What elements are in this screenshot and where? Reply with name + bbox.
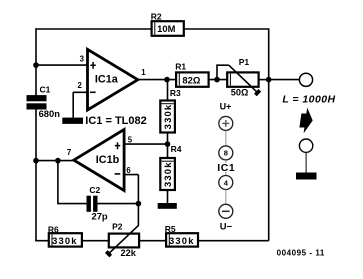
label document number [277, 248, 325, 257]
value 330k R3 [162, 104, 173, 130]
pin 8 circle [219, 146, 233, 160]
link pin8 to IC1 [225, 160, 227, 163]
capacitor C1 [27, 95, 47, 109]
pin 6 label [126, 166, 131, 175]
svg-text:R3: R3 [170, 88, 181, 98]
pin 7 label [67, 148, 71, 157]
op-amp U2 IC1b [74, 130, 124, 191]
wire C2 to junction [98, 203, 139, 205]
label P2 [112, 222, 123, 232]
svg-text:3: 3 [80, 55, 85, 64]
svg-text:R2: R2 [151, 11, 162, 21]
svg-text:1: 1 [141, 68, 146, 77]
svg-text:2: 2 [78, 81, 83, 90]
label IC1b [96, 154, 120, 166]
value 10M [157, 23, 175, 34]
op-amp U1 IC1a [88, 49, 138, 110]
svg-text:680n: 680n [39, 108, 61, 119]
resistor R5 [166, 233, 198, 246]
value 22k [121, 248, 137, 258]
svg-text:330k: 330k [52, 235, 78, 246]
wire R3 top stub [167, 80, 169, 101]
svg-text:82Ω: 82Ω [182, 75, 200, 86]
label R4 [171, 144, 182, 154]
wire bottom rail segments [35, 240, 269, 242]
wire terminal to ground [305, 153, 307, 173]
pin 1 label [141, 68, 146, 77]
resistor R6 [49, 233, 82, 246]
ground below lower terminal [296, 173, 317, 180]
svg-text:004095 - 11: 004095 - 11 [277, 248, 325, 257]
label IC1 = TL082 [85, 115, 146, 127]
potentiometer P1 [227, 65, 260, 95]
node junction C2 pin6 [136, 201, 142, 207]
svg-text:IC1 = TL082: IC1 = TL082 [85, 115, 146, 127]
label L = 1000H [282, 94, 335, 106]
ground below pin 2 [62, 118, 83, 124]
value 680n [39, 108, 61, 119]
svg-text:U−: U− [220, 220, 233, 231]
link U+ to pin8 [225, 131, 227, 146]
wire to output terminal [269, 79, 299, 81]
wire R3 bottom stub [167, 133, 169, 145]
svg-text:P1: P1 [239, 57, 250, 67]
svg-text:C2: C2 [89, 185, 100, 195]
label R1 [175, 61, 186, 71]
svg-text:R5: R5 [165, 224, 176, 234]
svg-text:5: 5 [128, 136, 133, 145]
potentiometer P2 [106, 225, 139, 256]
svg-text:8: 8 [224, 149, 228, 158]
wire top rail left of R2 [36, 28, 152, 30]
wire left rail below C1 [35, 109, 37, 241]
label P1 [239, 57, 250, 67]
svg-text:R4: R4 [171, 144, 182, 154]
node junction R3 R4 [165, 141, 171, 147]
label U+ [220, 102, 232, 112]
terminal circle lower [299, 139, 312, 152]
svg-text:50Ω: 50Ω [231, 88, 249, 98]
ground below R4 [158, 203, 177, 209]
svg-text:7: 7 [67, 148, 71, 157]
node junction right rail [266, 77, 272, 83]
label R5 [165, 224, 176, 234]
svg-text:IC1b: IC1b [96, 154, 120, 166]
capacitor C2 [87, 196, 98, 212]
node junction left +input [33, 62, 39, 68]
label R6 [48, 224, 59, 234]
node junction R1-P1 [214, 77, 220, 83]
pin 3 label [80, 55, 85, 64]
wire output IC1a [138, 79, 176, 81]
wire R4 top stub [167, 144, 169, 158]
node output junction [164, 77, 170, 83]
value 27p [92, 211, 108, 222]
wire top rail right of R2 into right rail down [184, 28, 269, 241]
power terminal U- circle [219, 204, 233, 218]
wire R1 to P1 [209, 79, 228, 81]
svg-text:22k: 22k [121, 248, 137, 258]
link IC1 to pin4 [225, 172, 227, 175]
value 50Ohm [231, 88, 249, 98]
wire left rail above C1 [35, 28, 37, 96]
terminal circle output [299, 73, 312, 86]
wire P1 to right rail [259, 79, 269, 81]
svg-text:R6: R6 [48, 224, 59, 234]
svg-text:R1: R1 [175, 61, 186, 71]
wire inverting input IC1b pin6 [124, 175, 138, 204]
svg-text:6: 6 [126, 166, 131, 175]
wire junction down to P2 wiper [137, 204, 139, 226]
power terminal U+ circle [219, 116, 233, 130]
label R3 [170, 88, 181, 98]
label U- [220, 220, 233, 231]
resistor R4 [160, 158, 175, 190]
resistor R2 [152, 21, 184, 36]
svg-text:330k: 330k [169, 235, 195, 246]
pin 2 label [78, 81, 83, 90]
svg-text:U+: U+ [220, 102, 232, 112]
label C1 [40, 84, 51, 94]
svg-text:L = 1000H: L = 1000H [282, 94, 335, 106]
svg-text:IC1a: IC1a [95, 74, 119, 86]
label C2 [89, 185, 100, 195]
resistor R1 [176, 72, 209, 86]
svg-text:10M: 10M [157, 23, 175, 34]
link pin4 to U- [225, 190, 227, 205]
wire inverting input IC1a [73, 92, 88, 118]
label R2 [151, 11, 162, 21]
node junction left rail pin7 [33, 158, 39, 164]
node junction pin7 branch [55, 158, 61, 164]
wire output IC1b pin7 [36, 160, 74, 162]
wire noninverting input IC1a [36, 64, 87, 66]
value 330k R5 [169, 235, 195, 246]
svg-text:330k: 330k [162, 104, 173, 130]
value 330k R6 [52, 235, 78, 246]
svg-text:P2: P2 [112, 222, 123, 232]
wire P1 wiper bypass [217, 65, 229, 79]
svg-text:27p: 27p [92, 211, 108, 222]
label IC1 supply [217, 162, 235, 174]
svg-text:330k: 330k [162, 161, 173, 187]
resistor R3 [160, 101, 175, 133]
wire branch down to C2 [58, 161, 87, 204]
value 330k R4 [162, 161, 173, 187]
pin 4 circle [219, 176, 233, 190]
value 82Ohm [182, 75, 200, 86]
equivalence arrow [299, 108, 315, 134]
wire R4 bottom stub [167, 190, 169, 203]
pin 5 label [128, 136, 133, 145]
wire noninverting input IC1b pin5 [124, 143, 167, 145]
svg-text:C1: C1 [40, 84, 51, 94]
label IC1a [95, 74, 119, 86]
